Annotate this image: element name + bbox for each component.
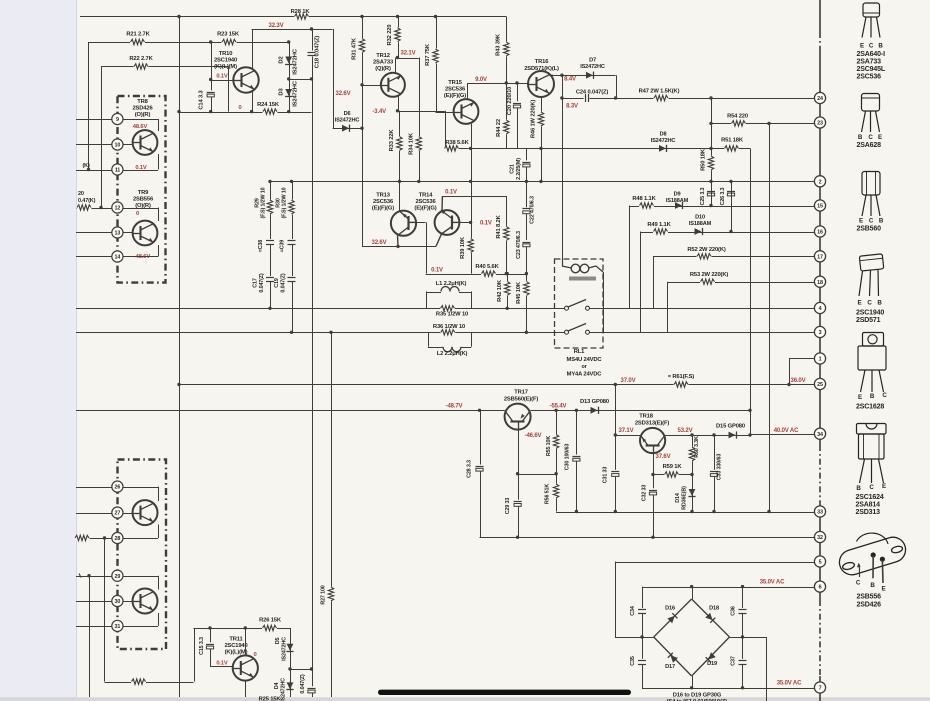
svg-text:TR12: TR12 bbox=[376, 53, 390, 59]
svg-text:D17: D17 bbox=[665, 664, 675, 670]
capacitor C38 bbox=[265, 239, 274, 245]
resistor R35 bbox=[440, 306, 455, 311]
wire Q2 emitter bbox=[158, 613, 160, 626]
inductor L2 loop bbox=[428, 332, 430, 347]
wire pin6 row y586.6 bbox=[642, 587, 814, 589]
svg-text:53.2V: 53.2V bbox=[678, 428, 693, 434]
svg-text:D3: D3 bbox=[279, 88, 285, 96]
svg-text:0.1V: 0.1V bbox=[216, 661, 228, 667]
resistor R47 bbox=[654, 96, 669, 101]
wire pin31 row bbox=[76, 626, 112, 628]
svg-text:R44 22: R44 22 bbox=[496, 119, 502, 137]
capacitor C16 bbox=[312, 669, 314, 697]
node top-bus junctions bbox=[177, 15, 180, 18]
svg-text:37.6V: 37.6V bbox=[656, 454, 671, 460]
diode D15 bbox=[729, 432, 736, 439]
dashed box TR8 TR9 bbox=[118, 96, 166, 283]
svg-text:IS2472HC: IS2472HC bbox=[281, 678, 287, 701]
resistor R42 bbox=[505, 281, 510, 296]
wire pin32 row y537.2 bbox=[480, 537, 815, 539]
diode D16 bbox=[667, 613, 677, 623]
wire TR10 base y79.5 bbox=[211, 80, 234, 82]
svg-text:C36: C36 bbox=[731, 606, 737, 616]
svg-text:2SB556: 2SB556 bbox=[133, 197, 154, 203]
svg-text:2SB560: 2SB560 bbox=[857, 226, 882, 233]
wire 32.6V row y246.4 bbox=[362, 246, 436, 248]
resistor R61 bbox=[674, 382, 689, 387]
resistor R29 bbox=[267, 200, 272, 215]
package TO-92 2SA640 group bbox=[862, 3, 880, 38]
svg-text:TR15: TR15 bbox=[448, 80, 463, 86]
svg-text:R53 2W 220(K): R53 2W 220(K) bbox=[690, 272, 729, 278]
pin circles right column bbox=[814, 92, 825, 103]
resistor R33 bbox=[397, 136, 402, 151]
wire 32.3V row y29 bbox=[252, 29, 333, 31]
capacitor C22 bbox=[522, 207, 531, 213]
wire pin16 row y231.5 bbox=[640, 232, 814, 234]
svg-text:R46 1W 220(K): R46 1W 220(K) bbox=[531, 100, 537, 139]
svg-text:16: 16 bbox=[817, 230, 823, 236]
wire TR18 base y435 bbox=[615, 435, 640, 437]
transistor lower Q2 bbox=[133, 589, 158, 614]
wire Q1 collector bbox=[158, 487, 160, 501]
svg-text:2SD571(K)(L): 2SD571(K)(L) bbox=[524, 66, 559, 72]
svg-text:0.1V: 0.1V bbox=[431, 268, 443, 274]
wire pin15 row y205.5 bbox=[629, 206, 814, 208]
wire rail y181.4 to pin 2 bbox=[270, 181, 814, 183]
node jog y669 bbox=[288, 667, 291, 670]
svg-text:D14: D14 bbox=[675, 493, 681, 503]
wire TR14 emitter up to 0.1V row bbox=[441, 196, 443, 211]
svg-text:32.3V: 32.3V bbox=[269, 23, 284, 29]
wire TR10 collector x251.6 bbox=[252, 29, 254, 69]
wire TR9 emitter bbox=[158, 245, 160, 257]
svg-text:(E)(F)(G): (E)(F)(G) bbox=[444, 93, 466, 99]
svg-text:28: 28 bbox=[115, 536, 121, 542]
wire TR8 collector bbox=[158, 119, 160, 131]
wire TR9 collector bbox=[158, 208, 160, 222]
svg-text:RD36E(B): RD36E(B) bbox=[682, 486, 688, 510]
capacitor C18 bbox=[307, 51, 316, 57]
svg-text:C: C bbox=[856, 580, 861, 587]
svg-text:8.3V: 8.3V bbox=[566, 104, 578, 110]
svg-text:R40 5.6K: R40 5.6K bbox=[475, 264, 499, 270]
wire pin26 row bbox=[76, 487, 112, 489]
svg-text:≈ R61(F.S): ≈ R61(F.S) bbox=[668, 374, 694, 380]
svg-text:35.0V AC: 35.0V AC bbox=[760, 580, 785, 586]
svg-text:R37 75K: R37 75K bbox=[425, 43, 431, 66]
pin 10 bbox=[112, 113, 123, 124]
wire bus y308 relay to pin 4 bbox=[589, 308, 814, 310]
wire Q1 emitter bbox=[158, 525, 160, 539]
wire R32 vertical x397.5 bbox=[398, 17, 400, 58]
resistor R54 bbox=[731, 121, 746, 126]
diode D4 bbox=[287, 682, 294, 689]
resistor R60 bbox=[689, 447, 694, 462]
wire R26 row y628 bbox=[194, 628, 291, 630]
svg-text:R36 1/2W 10: R36 1/2W 10 bbox=[433, 324, 465, 330]
svg-text:C35: C35 bbox=[630, 656, 636, 666]
relay RL1 box bbox=[555, 259, 604, 348]
svg-text:(Q)(R): (Q)(R) bbox=[375, 66, 391, 72]
wire corner x193.5 bbox=[194, 628, 196, 682]
svg-text:25: 25 bbox=[817, 382, 823, 388]
wire R31 vertical x362 bbox=[362, 17, 364, 247]
svg-text:TR14: TR14 bbox=[419, 193, 434, 199]
svg-text:E: E bbox=[859, 218, 863, 225]
svg-text:2SD571: 2SD571 bbox=[856, 317, 881, 324]
wire x629 down to bus308 bbox=[629, 206, 631, 309]
wire -3.4V row y110.8 bbox=[398, 111, 445, 113]
resistor R40 bbox=[481, 271, 496, 276]
svg-text:2SA628: 2SA628 bbox=[857, 142, 882, 149]
svg-text:15: 15 bbox=[817, 204, 823, 210]
transistor TR12 bbox=[381, 73, 405, 97]
wire R33 vertical x399.4 bbox=[399, 111, 401, 212]
wire vertical x228.5 R22 to bottom row bbox=[228, 67, 230, 112]
svg-text:C23 470/6.3: C23 470/6.3 bbox=[516, 231, 522, 259]
capacitor C39 bbox=[287, 239, 296, 245]
svg-text:30: 30 bbox=[115, 599, 121, 605]
wire TR15 base bbox=[436, 112, 455, 114]
svg-text:R47 2W 1.5K(K): R47 2W 1.5K(K) bbox=[639, 89, 680, 95]
wire pin5 row y561.5 bbox=[615, 562, 814, 564]
svg-text:B: B bbox=[858, 134, 863, 141]
wire rail -55.4V y410.3 right of TR17 bbox=[531, 410, 751, 412]
svg-text:2SD313(E)(F): 2SD313(E)(F) bbox=[635, 421, 669, 427]
resistor R39 bbox=[468, 238, 473, 253]
relay contact sw2 bbox=[565, 330, 569, 334]
resistor R45 bbox=[524, 281, 529, 296]
svg-text:36.0V: 36.0V bbox=[791, 378, 806, 384]
wire R41 vertical x506.3 bbox=[506, 196, 508, 274]
svg-text:32.1V: 32.1V bbox=[401, 51, 416, 57]
transistor TR16 bbox=[528, 71, 554, 97]
svg-text:R27 100: R27 100 bbox=[321, 585, 327, 604]
svg-text:E: E bbox=[858, 394, 862, 401]
wire R37 vertical x435.5 bbox=[436, 17, 438, 112]
svg-text:R31 47K: R31 47K bbox=[352, 37, 358, 60]
wire x766 down bbox=[766, 637, 768, 701]
svg-text:L1 2.2μH(K): L1 2.2μH(K) bbox=[436, 281, 467, 287]
svg-text:2SA814: 2SA814 bbox=[856, 502, 881, 509]
svg-text:0.047(Z): 0.047(Z) bbox=[259, 273, 265, 293]
svg-text:IS2472HC: IS2472HC bbox=[335, 118, 360, 124]
wire R40 row y273.6 bbox=[426, 274, 527, 276]
capacitor C19 bbox=[287, 276, 296, 282]
svg-text:C29 33: C29 33 bbox=[505, 498, 511, 515]
svg-text:2SC945L: 2SC945L bbox=[857, 66, 886, 73]
svg-text:TR13: TR13 bbox=[376, 193, 391, 199]
capacitor C35 bbox=[637, 659, 646, 665]
svg-text:D18: D18 bbox=[709, 606, 719, 612]
svg-text:34: 34 bbox=[817, 432, 823, 438]
svg-text:6: 6 bbox=[819, 585, 822, 591]
resistor mid stub bbox=[131, 679, 146, 684]
capacitor C21 bbox=[522, 160, 531, 166]
diode D6 bbox=[342, 125, 349, 132]
svg-text:0.1V: 0.1V bbox=[480, 221, 492, 227]
svg-text:MS4U 24VDC: MS4U 24VDC bbox=[567, 357, 603, 363]
svg-text:C: C bbox=[867, 300, 872, 307]
wire TR11 base bbox=[210, 666, 233, 668]
svg-text:C: C bbox=[868, 134, 873, 141]
svg-text:R59 1K: R59 1K bbox=[663, 464, 683, 470]
wire C15 vertical x210 bbox=[210, 628, 212, 667]
wire bridge top vertical bbox=[692, 587, 694, 599]
capacitor C28 bbox=[475, 465, 484, 471]
svg-text:R39 10K: R39 10K bbox=[460, 236, 466, 259]
svg-text:IS2472HC: IS2472HC bbox=[580, 64, 605, 70]
wire pin17 row y256.3 bbox=[653, 256, 814, 258]
svg-text:37.0V: 37.0V bbox=[621, 378, 636, 384]
svg-text:2SD426: 2SD426 bbox=[132, 106, 153, 112]
wire TR13 collector x399.4 into rail (drawn above) bbox=[399, 181, 401, 211]
svg-text:B: B bbox=[878, 43, 883, 50]
svg-text:32: 32 bbox=[817, 535, 823, 541]
svg-text:B: B bbox=[870, 393, 875, 400]
resistor R46 bbox=[538, 112, 543, 127]
wire R22 row y66.5 bbox=[101, 66, 229, 68]
svg-text:R28 1K: R28 1K bbox=[291, 9, 311, 15]
svg-text:R54 220: R54 220 bbox=[727, 114, 748, 120]
capacitor C34 bbox=[637, 608, 646, 614]
svg-text:IS188AM: IS188AM bbox=[666, 198, 689, 204]
wire pin13 row bbox=[76, 232, 112, 234]
svg-text:C33 330/63: C33 330/63 bbox=[717, 454, 723, 481]
svg-text:D16 to D19 GP30G: D16 to D19 GP30G bbox=[673, 693, 722, 699]
svg-text:17: 17 bbox=[817, 254, 823, 260]
svg-text:2SC536: 2SC536 bbox=[373, 199, 394, 205]
svg-text:R60 3.3K: R60 3.3K bbox=[694, 436, 700, 458]
wire pin12 row bbox=[76, 208, 112, 210]
svg-text:TR16: TR16 bbox=[535, 59, 550, 65]
svg-text:C37: C37 bbox=[731, 656, 737, 666]
resistor R50 bbox=[708, 156, 713, 171]
relay coil bbox=[571, 264, 580, 273]
svg-text:0: 0 bbox=[238, 105, 241, 111]
diode D5 bbox=[287, 644, 294, 651]
svg-text:TR8: TR8 bbox=[137, 99, 148, 105]
svg-text:2SA733: 2SA733 bbox=[373, 59, 394, 65]
wire D7 corner x615.6 bbox=[616, 75, 618, 98]
svg-text:IS188AM: IS188AM bbox=[689, 221, 712, 227]
svg-text:8.4V: 8.4V bbox=[564, 77, 576, 83]
transistor TR11 bbox=[233, 655, 258, 680]
svg-text:20: 20 bbox=[78, 191, 84, 197]
resistor R55 bbox=[553, 434, 558, 449]
svg-text:D4: D4 bbox=[274, 683, 280, 690]
svg-text:L2 2.2μH(K): L2 2.2μH(K) bbox=[437, 351, 468, 357]
wire D2-D3 chain x288.7 bbox=[289, 42, 291, 112]
svg-text:D9: D9 bbox=[674, 192, 681, 198]
wire TR8 emitter bbox=[158, 154, 160, 170]
svg-text:C26 3.3: C26 3.3 bbox=[720, 187, 726, 205]
wire C18 vertical x311.5 bbox=[312, 29, 314, 669]
svg-text:(E)(F)(G): (E)(F)(G) bbox=[414, 206, 436, 212]
svg-text:R51 18K: R51 18K bbox=[721, 138, 744, 144]
wire pin30 row bbox=[76, 601, 112, 603]
relay contact sw1 bbox=[565, 306, 569, 310]
wire corner x88.5 down to pin11 row bbox=[88, 42, 90, 170]
wire C30 vertical x576.4 bbox=[576, 410, 578, 511]
svg-text:2SC1628: 2SC1628 bbox=[856, 404, 884, 411]
svg-text:TR10: TR10 bbox=[219, 51, 233, 57]
wire rail 37.0V y384.5 bbox=[179, 384, 814, 386]
wire pin14 row bbox=[76, 256, 112, 258]
diode D8 bbox=[659, 145, 666, 152]
svg-text:D7: D7 bbox=[589, 58, 596, 64]
wire x653 down to bus308 bbox=[653, 256, 655, 308]
wire TR14 collector leg bbox=[436, 234, 442, 247]
svg-text:2SC1940: 2SC1940 bbox=[214, 58, 237, 64]
svg-text:D6: D6 bbox=[344, 111, 351, 117]
diode bridge D16-D19 bbox=[654, 599, 692, 637]
svg-text:2SA640-I: 2SA640-I bbox=[857, 51, 886, 58]
svg-text:10: 10 bbox=[115, 143, 121, 149]
diode D7 bbox=[586, 72, 593, 79]
wire bridge right rail y637 bbox=[730, 637, 767, 639]
svg-text:C34: C34 bbox=[630, 606, 636, 616]
wire TR18 collector y435 bbox=[665, 435, 751, 437]
wire TR18 emitter x653 bbox=[653, 453, 655, 537]
svg-text:D8: D8 bbox=[660, 132, 667, 138]
svg-text:R43 39K: R43 39K bbox=[496, 33, 502, 56]
wire pin7 row y687.8 bbox=[642, 688, 814, 690]
svg-text:32.6V: 32.6V bbox=[336, 91, 351, 97]
svg-text:C32 33: C32 33 bbox=[642, 485, 648, 502]
svg-text:-46.6V: -46.6V bbox=[525, 433, 542, 439]
svg-text:24: 24 bbox=[817, 96, 823, 102]
resistor R30 bbox=[289, 200, 294, 215]
wire R45 vertical x526.4 bbox=[526, 274, 528, 333]
svg-text:0.1V: 0.1V bbox=[445, 190, 457, 196]
svg-text:2.2/25(M): 2.2/25(M) bbox=[516, 158, 522, 180]
capacitor C36 bbox=[738, 608, 747, 614]
svg-text:R55 10K: R55 10K bbox=[546, 436, 552, 456]
wire 32.3V to D6 corner x332.6 bbox=[333, 29, 335, 128]
svg-text:R22 2.7K: R22 2.7K bbox=[129, 56, 153, 62]
wire long vertical x769 bbox=[769, 123, 771, 511]
svg-text:C18 0.047(Z): C18 0.047(Z) bbox=[315, 36, 321, 69]
wire pin33 row y511.5 bbox=[556, 512, 814, 514]
wire pin28 row bbox=[76, 538, 112, 540]
svg-text:2: 2 bbox=[819, 179, 822, 185]
svg-text:48.6V: 48.6V bbox=[133, 124, 148, 130]
wire bottom row y111.6 bbox=[179, 112, 312, 114]
wire bus y332 relay to pin 3 bbox=[589, 332, 814, 334]
svg-text:13: 13 bbox=[115, 231, 121, 237]
svg-text:TR11: TR11 bbox=[229, 637, 243, 643]
wire R34 vertical x418.8 bbox=[419, 58, 421, 182]
wire R55 R56 vertical x556.1 bbox=[556, 410, 558, 511]
wire long vertical x179 bbox=[179, 17, 181, 698]
wire long vertical x561.9 to relay bbox=[562, 75, 564, 259]
svg-text:D2: D2 bbox=[279, 56, 285, 63]
svg-text:C25 3.3: C25 3.3 bbox=[700, 187, 706, 205]
wire TR12 collector bbox=[395, 58, 397, 74]
diode D2 bbox=[285, 57, 292, 64]
resistor R24 bbox=[263, 109, 278, 114]
wire C24-R47 row y98 bbox=[562, 98, 814, 100]
svg-text:9: 9 bbox=[116, 117, 119, 123]
svg-text:C15 3.3: C15 3.3 bbox=[199, 637, 205, 655]
wire relay right x603 bbox=[603, 272, 605, 332]
inductor L1 loop bbox=[426, 292, 428, 309]
svg-text:IS2472HC: IS2472HC bbox=[293, 48, 299, 75]
transistor TR9 bbox=[133, 221, 158, 246]
svg-text:C24 0.047(Z): C24 0.047(Z) bbox=[576, 90, 609, 96]
wire x640 down to bus332 bbox=[640, 232, 642, 333]
wire C34 C35 vertical x642 bbox=[642, 587, 644, 689]
diode D13 bbox=[591, 407, 598, 414]
resistor R48 bbox=[639, 203, 654, 208]
resistor R19 stub bbox=[75, 536, 90, 541]
resistor R20 stub bbox=[77, 205, 92, 210]
resistor R31 bbox=[359, 38, 364, 53]
wire R30 chain x291.5 bbox=[292, 181, 294, 332]
svg-text:E: E bbox=[882, 483, 886, 490]
svg-text:2SB560(E)(F): 2SB560(E)(F) bbox=[504, 397, 538, 403]
svg-text:C30 100/63: C30 100/63 bbox=[565, 444, 571, 471]
wire TR15 emitter bbox=[470, 122, 472, 124]
wire pin1 jog bbox=[789, 358, 814, 360]
svg-text:C: C bbox=[882, 392, 887, 399]
svg-text:18: 18 bbox=[817, 280, 823, 286]
svg-text:≈C38: ≈C38 bbox=[258, 240, 264, 252]
svg-text:35.0V AC: 35.0V AC bbox=[777, 681, 802, 687]
resistor R22 bbox=[134, 64, 149, 69]
wire R50 vertical x711 bbox=[711, 98, 713, 181]
wire bridge bottom vertical bbox=[692, 676, 694, 688]
capacitor C23 bbox=[522, 240, 531, 246]
resistor R38 bbox=[444, 146, 459, 151]
svg-text:2SD426: 2SD426 bbox=[857, 602, 882, 609]
svg-text:R34 10K: R34 10K bbox=[409, 132, 415, 155]
TO-3 pins bbox=[859, 565, 861, 578]
package TO-92 2SA628 group bbox=[862, 94, 880, 133]
svg-text:D16: D16 bbox=[665, 606, 675, 612]
wire TR10 emitter x251.6 bbox=[252, 91, 254, 112]
wire pin27 row bbox=[76, 513, 112, 515]
svg-text:-48.7V: -48.7V bbox=[446, 404, 463, 410]
svg-text:C31 33: C31 33 bbox=[603, 467, 609, 484]
thick black bar bbox=[378, 690, 631, 695]
svg-text:R23 15K: R23 15K bbox=[217, 32, 240, 38]
wire bus y308 left of relay bbox=[76, 308, 565, 310]
svg-text:27: 27 bbox=[115, 511, 121, 517]
capacitor C17 bbox=[265, 276, 274, 282]
svg-text:9.0V: 9.0V bbox=[475, 77, 487, 83]
svg-text:B: B bbox=[856, 485, 861, 492]
capacitor C20 bbox=[512, 101, 521, 107]
resistor R51 bbox=[724, 146, 739, 151]
svg-text:32.6V: 32.6V bbox=[372, 240, 387, 246]
svg-text:2SC536: 2SC536 bbox=[857, 74, 882, 81]
wire TR11 collector bbox=[245, 628, 247, 656]
diode D9 bbox=[675, 202, 682, 209]
svg-text:31: 31 bbox=[115, 624, 121, 630]
svg-text:2SB556: 2SB556 bbox=[857, 594, 882, 601]
pin bus dash-dot vertical x820 bbox=[819, 0, 821, 92]
resistor R44 bbox=[504, 120, 509, 135]
svg-text:(K)(L)(M): (K)(L)(M) bbox=[225, 650, 248, 656]
wire R43-R44 vertical x506.3 bbox=[506, 17, 508, 149]
wire pin29 row bbox=[76, 576, 112, 578]
svg-text:B: B bbox=[870, 582, 875, 589]
transistor TR10 bbox=[233, 67, 258, 92]
svg-text:C28 3.3: C28 3.3 bbox=[467, 460, 473, 478]
